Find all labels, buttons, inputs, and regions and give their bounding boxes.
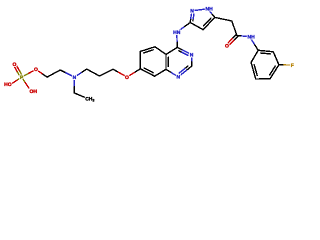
bond C2-N1q [178, 66, 192, 77]
bond q8a-qA [155, 47, 166, 55]
svg-text:F: F [291, 63, 294, 69]
bond q6-q7 [140, 68, 154, 76]
bond C4-N3 [177, 47, 191, 55]
bond Oar-q7 [127, 69, 140, 77]
atom N3 label N [190, 52, 194, 58]
bond N1q-qB [166, 69, 178, 77]
atom N2pz label N [190, 9, 194, 15]
svg-text:N: N [73, 75, 77, 81]
svg-text:NH: NH [247, 35, 255, 41]
bond qA-C4 [166, 47, 177, 54]
bond c2-N1 [60, 70, 74, 77]
atom F label F [291, 63, 294, 69]
bond Cco-Nam [237, 36, 250, 37]
svg-text:O: O [12, 62, 16, 68]
svg-text:N: N [190, 9, 194, 15]
bond p1-p2 [87, 69, 100, 76]
bond C3p-C4p [270, 65, 279, 79]
bond C4pz-C3pz [190, 23, 203, 30]
bond C6p-C1p [251, 50, 258, 62]
bond qB-q6 [155, 69, 166, 76]
bond N1-e1 [73, 77, 75, 93]
atom Oh1 label HO [4, 82, 12, 88]
bond q8-q8a [140, 47, 155, 53]
svg-text:O: O [125, 75, 129, 81]
bond Cco-Oco [226, 35, 238, 47]
bond C5pz-CH2 [215, 17, 232, 21]
bond NHl-C3pz [177, 23, 191, 33]
atom Od label O [12, 62, 16, 68]
bond q7-q8 [139, 51, 141, 68]
bond N2pz-N1pz [192, 9, 208, 11]
atom P label P [20, 75, 24, 81]
bond P-Oh1 [12, 77, 22, 83]
svg-text:HO: HO [4, 82, 12, 88]
bond P-Od [13, 64, 22, 78]
svg-text:HN: HN [173, 30, 181, 36]
svg-text:O: O [225, 44, 229, 50]
bond C5p-C6p [251, 62, 257, 79]
bond C4p-C5p [256, 78, 270, 80]
atom Oh2 label OH [30, 89, 38, 95]
bond P-Oe [22, 69, 36, 77]
atom N1q label N [176, 75, 180, 81]
bond C5pz-C4pz [203, 17, 215, 29]
bond p3-Oar [113, 69, 127, 77]
bond c1-c2 [47, 70, 60, 77]
svg-text:N: N [190, 52, 194, 58]
bond C1p-C2p [258, 50, 273, 54]
bond qA-qB [166, 54, 168, 69]
atom NHl label HN [173, 30, 181, 36]
bond C2p-C3p [273, 52, 279, 65]
svg-text:NH: NH [205, 7, 213, 13]
bond CH2-Cco [232, 21, 237, 36]
svg-text:O: O [34, 67, 38, 73]
bond C4-NHl [176, 32, 179, 47]
atom N1 label N [73, 75, 77, 81]
bond P-Oh2 [22, 77, 29, 88]
bond p2-p3 [100, 69, 114, 76]
svg-text:OH: OH [30, 89, 38, 95]
atom Oe label O [34, 67, 38, 73]
bond N1pz-C5pz [208, 9, 215, 18]
atom e2 label CH3 [85, 97, 94, 103]
bond Nam-C1p [250, 37, 259, 51]
atom Oar label O [125, 75, 129, 81]
bond C3p-F [279, 64, 292, 66]
atom Oco label O [225, 44, 229, 50]
bond e1-e2 [74, 93, 85, 98]
svg-text:N: N [176, 75, 180, 81]
bond N1-p1 [74, 69, 86, 77]
bond C3pz-N2pz [190, 11, 194, 23]
atom Nam label NH [247, 35, 255, 41]
bond N3-C2 [191, 55, 193, 67]
atom N1pz label NH [205, 7, 213, 13]
bond Oe-c1 [36, 69, 47, 77]
